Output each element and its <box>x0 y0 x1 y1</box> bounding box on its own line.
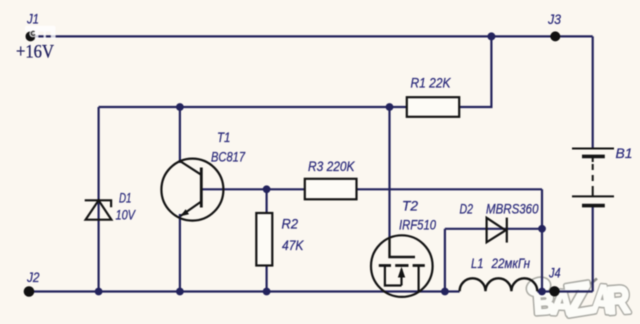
node gate <box>386 103 394 111</box>
node R2 bottom <box>263 288 271 296</box>
wire T1 base to R3 <box>201 188 305 190</box>
node D2 cathode <box>538 225 546 233</box>
svg-text:T1: T1 <box>217 130 231 145</box>
terminal J4 <box>549 286 559 296</box>
wire T1 collector <box>179 107 181 163</box>
wire R3 right to output vertical <box>357 188 543 190</box>
svg-text:R1 22K: R1 22K <box>411 76 452 91</box>
svg-text:J4: J4 <box>548 266 560 281</box>
zener diode D1 <box>85 200 112 219</box>
wire T1 emitter <box>179 214 181 292</box>
svg-text:22мкГн: 22мкГн <box>491 256 531 271</box>
watermark curl detail at J1 <box>31 31 35 35</box>
svg-text:D2: D2 <box>460 202 474 217</box>
svg-text:IRF510: IRF510 <box>399 218 436 233</box>
node top rail / R1 <box>487 32 495 40</box>
terminal J1 <box>26 31 36 41</box>
svg-text:10V: 10V <box>116 208 137 223</box>
svg-text:D1: D1 <box>119 191 132 206</box>
svg-text:J1: J1 <box>26 12 39 27</box>
wire T2 gate vertical <box>388 107 390 238</box>
wire R2 bottom stub <box>266 266 268 292</box>
wire left vertical through D1 <box>97 107 99 292</box>
svg-text:T2: T2 <box>402 199 418 214</box>
svg-text:L1: L1 <box>471 256 484 271</box>
watermark blob over J1 wire <box>25 26 56 40</box>
svg-text:R3 220K: R3 220K <box>308 159 355 174</box>
diode D2 <box>487 218 507 243</box>
wire battery bottom feed <box>592 206 594 292</box>
wire bottom rail right <box>537 290 592 292</box>
svg-text:MBRS360: MBRS360 <box>486 202 539 217</box>
wire D2 row <box>445 228 542 230</box>
svg-text:+16V: +16V <box>16 42 54 63</box>
wire output vertical <box>541 189 543 291</box>
transistor T1 <box>161 159 223 221</box>
wire gate row horizontal <box>99 106 407 108</box>
resistor R3 <box>305 179 357 200</box>
wire D2 anode vertical <box>444 229 446 292</box>
wire top rail J1 to battery corner <box>29 35 593 37</box>
svg-text:J2: J2 <box>26 270 40 285</box>
battery B1 <box>572 149 614 206</box>
inductor L1 <box>460 278 538 291</box>
svg-text:J3: J3 <box>547 12 561 27</box>
svg-text:R2: R2 <box>282 217 299 232</box>
svg-text:BC817: BC817 <box>211 150 245 165</box>
svg-text:B1: B1 <box>616 146 633 161</box>
node R2 top <box>263 185 271 193</box>
svg-text:47K: 47K <box>282 238 304 253</box>
node D1 bottom <box>95 288 103 296</box>
wire R2 top stub <box>266 189 268 213</box>
terminal J2 <box>24 286 35 297</box>
mosfet T2 <box>371 235 433 297</box>
node D2 anode bottom <box>441 288 449 296</box>
resistor R2 <box>256 213 272 266</box>
wire bottom rail left <box>29 290 460 292</box>
terminal J3 <box>550 31 560 41</box>
wire R1 right stub to top rail <box>460 36 492 107</box>
resistor R1 <box>407 97 459 117</box>
node T1 emitter bottom <box>176 288 184 296</box>
wire battery top feed <box>592 36 594 148</box>
node output bottom <box>538 288 546 296</box>
node T1 collector <box>176 103 184 111</box>
